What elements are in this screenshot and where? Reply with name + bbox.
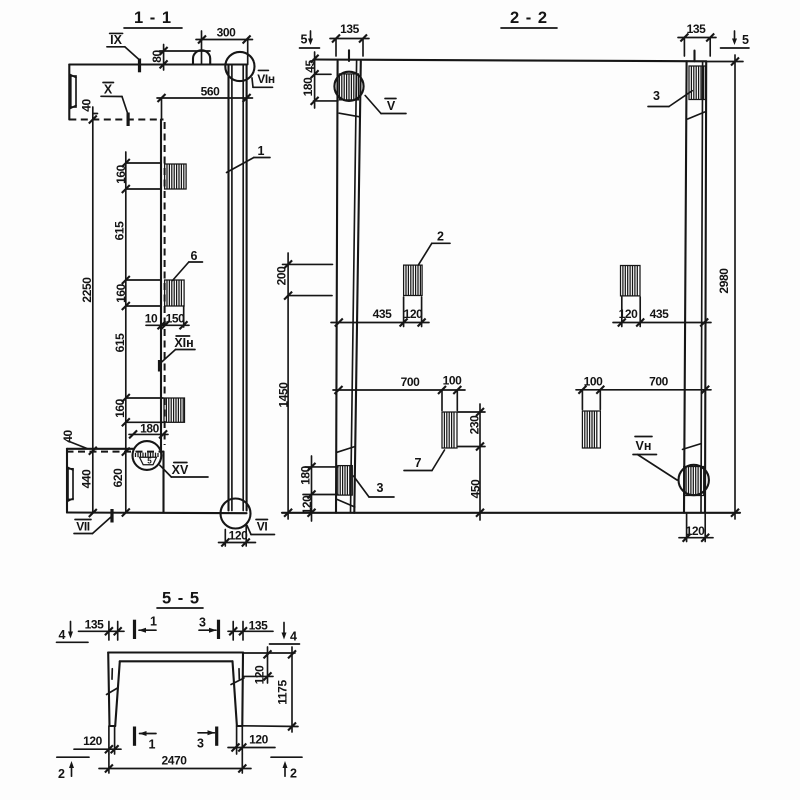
cut mark 1 bottom xyxy=(135,727,157,752)
svg-text:180: 180 xyxy=(301,77,315,97)
svg-text:300: 300 xyxy=(217,26,237,40)
section mark 4 left xyxy=(57,622,89,643)
dim 180/120 left bottom xyxy=(299,456,339,521)
svg-text:3: 3 xyxy=(199,616,206,630)
svg-text:700: 700 xyxy=(401,375,421,389)
dim 135 right 5-5 xyxy=(228,619,273,641)
embedded bar bottom-left xyxy=(67,467,73,502)
hatch plate 3 left bottom xyxy=(338,466,353,496)
svg-text:VIн: VIн xyxy=(257,72,275,86)
svg-text:120: 120 xyxy=(229,529,249,543)
label V xyxy=(365,96,406,114)
svg-text:X: X xyxy=(104,83,113,97)
section mark 5 left xyxy=(300,31,320,48)
svg-text:3: 3 xyxy=(653,89,660,103)
svg-text:615: 615 xyxy=(113,333,127,353)
dim 100/700 right xyxy=(576,375,711,410)
dim 40 top xyxy=(80,99,98,114)
svg-text:135: 135 xyxy=(85,618,105,632)
svg-text:V: V xyxy=(387,99,396,113)
svg-text:IX: IX xyxy=(110,33,122,47)
section mark 5 right xyxy=(721,31,750,48)
title 5-5 xyxy=(157,590,203,609)
hatch plate in circle Vn xyxy=(684,467,704,496)
hatch plate 2' right xyxy=(621,266,641,296)
svg-text:2470: 2470 xyxy=(161,754,187,768)
svg-text:XIн: XIн xyxy=(174,336,193,350)
dim 120 bottom left 5-5 xyxy=(74,726,121,754)
lifting loop xyxy=(193,50,210,64)
svg-text:560: 560 xyxy=(201,85,221,99)
dim 435/120 left xyxy=(331,297,429,327)
svg-text:4: 4 xyxy=(59,628,66,642)
dim 230/450 left xyxy=(458,404,485,520)
dim 120 bottom right col xyxy=(679,514,713,542)
section mark 2 right xyxy=(271,757,302,780)
dim 120 bottom right 5-5 xyxy=(228,726,275,754)
label XV xyxy=(160,463,208,478)
svg-text:VI: VI xyxy=(257,520,268,534)
svg-text:100: 100 xyxy=(443,374,463,388)
svg-text:2: 2 xyxy=(290,767,297,781)
svg-text:7: 7 xyxy=(415,456,422,470)
dim 180 xyxy=(129,422,168,439)
svg-text:200: 200 xyxy=(275,266,289,286)
panel top edge xyxy=(314,60,707,62)
section mark 4 right xyxy=(270,623,300,645)
svg-text:160: 160 xyxy=(114,283,128,303)
hatch plate 7 left xyxy=(442,412,457,448)
dim 200/1450 left xyxy=(275,253,333,519)
hatch plate V in left column xyxy=(339,74,358,100)
dim 135 right column xyxy=(678,22,716,56)
svg-text:2 - 2: 2 - 2 xyxy=(510,9,548,27)
label Vn xyxy=(633,437,677,481)
svg-text:160: 160 xyxy=(114,164,128,184)
panel top flange outline xyxy=(69,65,246,120)
weld plate 6a xyxy=(165,164,187,189)
svg-text:620: 620 xyxy=(111,468,125,488)
svg-text:5: 5 xyxy=(301,33,308,47)
svg-text:435: 435 xyxy=(650,307,670,321)
title 2-2 xyxy=(501,9,557,28)
svg-text:135: 135 xyxy=(340,22,360,36)
panel bottom edge xyxy=(282,512,740,514)
label 1 xyxy=(227,144,271,173)
svg-text:10: 10 xyxy=(145,312,158,326)
dim 2470 xyxy=(99,754,251,774)
dim 1175 xyxy=(242,647,299,732)
left column 2-2 xyxy=(336,50,361,513)
dim 560 xyxy=(157,85,253,120)
svg-text:440: 440 xyxy=(79,469,93,489)
dim 2250 xyxy=(79,107,97,517)
channel profile xyxy=(107,653,245,727)
svg-text:5: 5 xyxy=(742,33,749,47)
bottom flange outline xyxy=(67,449,247,513)
svg-text:700: 700 xyxy=(649,375,669,389)
label 6 xyxy=(173,249,203,281)
svg-text:1: 1 xyxy=(150,615,157,629)
label XIn xyxy=(160,336,196,372)
dim 700/100 left xyxy=(333,374,465,411)
svg-text:VII: VII xyxy=(76,520,90,534)
svg-text:Vн: Vн xyxy=(636,439,652,453)
svg-text:180: 180 xyxy=(140,422,160,436)
weld plate 6b xyxy=(165,280,185,306)
label 7 xyxy=(404,450,445,471)
hatch plate 2 left xyxy=(404,265,423,295)
svg-text:150: 150 xyxy=(166,312,186,326)
detail circle XV xyxy=(133,441,162,470)
label 3 top right xyxy=(648,89,692,107)
dim 120 bottom 1-1 xyxy=(219,525,256,547)
dim 45/180 left xyxy=(301,52,338,108)
svg-text:2: 2 xyxy=(58,767,65,781)
svg-text:615: 615 xyxy=(113,221,127,241)
hatch plate 7' right xyxy=(582,411,600,448)
svg-text:3: 3 xyxy=(377,481,384,495)
label 3 bottom left xyxy=(354,476,395,497)
right column 2-2 xyxy=(683,51,707,513)
detail circle VI xyxy=(221,499,251,529)
embedded bar top-left xyxy=(70,75,76,109)
label 2 xyxy=(418,230,450,266)
svg-text:3: 3 xyxy=(197,737,204,751)
svg-text:1 - 1: 1 - 1 xyxy=(134,9,172,27)
svg-text:135: 135 xyxy=(687,22,707,36)
detail circle Vn xyxy=(679,465,709,495)
svg-text:40: 40 xyxy=(80,99,94,112)
svg-text:135: 135 xyxy=(249,619,269,633)
column item 1 xyxy=(229,65,247,511)
svg-text:120: 120 xyxy=(249,733,269,747)
label VIn xyxy=(252,70,275,87)
label IX xyxy=(107,33,140,72)
rib visible edge xyxy=(160,120,162,451)
dim chain 160/615/160/615/160/620 xyxy=(111,152,163,517)
svg-text:2980: 2980 xyxy=(717,268,731,294)
title 1-1 xyxy=(124,9,182,28)
svg-text:1175: 1175 xyxy=(276,680,290,705)
dim 300 xyxy=(196,26,253,65)
hatch plate 3 right top xyxy=(689,66,705,100)
dim 120 right rotated xyxy=(243,647,295,684)
rib hidden edge dashed xyxy=(164,122,166,445)
svg-text:120: 120 xyxy=(253,665,267,685)
dim 80 xyxy=(150,45,210,71)
dim 10 150 xyxy=(145,306,189,329)
label VII xyxy=(74,509,112,534)
svg-text:1: 1 xyxy=(149,738,156,752)
label VI xyxy=(247,520,275,535)
cut mark 3 bottom xyxy=(197,727,217,751)
svg-text:160: 160 xyxy=(113,398,127,418)
label X xyxy=(101,83,128,127)
dim 2980 xyxy=(706,55,743,519)
svg-text:4: 4 xyxy=(290,630,297,644)
svg-text:2: 2 xyxy=(437,230,444,244)
detail circle VIn top xyxy=(225,52,254,81)
cut mark 3 top xyxy=(199,616,219,640)
svg-text:XV: XV xyxy=(172,463,189,477)
svg-text:2250: 2250 xyxy=(80,277,94,303)
dim 135 left column xyxy=(330,22,369,56)
weld plate 6c xyxy=(164,398,185,422)
svg-text:6: 6 xyxy=(191,249,198,263)
dim 40 bottom xyxy=(61,430,87,449)
svg-text:5: 5 xyxy=(147,457,152,466)
cut mark 1 top xyxy=(135,615,158,640)
section mark 2 left xyxy=(57,757,89,781)
dim 135 left 5-5 xyxy=(79,618,125,641)
svg-text:1: 1 xyxy=(258,144,265,158)
svg-text:120: 120 xyxy=(83,734,103,748)
svg-text:5 - 5: 5 - 5 xyxy=(162,590,200,608)
svg-text:435: 435 xyxy=(373,307,393,321)
detail circle V xyxy=(334,72,363,101)
hidden edge dashed top flange xyxy=(69,119,163,121)
dim 120/435 right xyxy=(613,297,711,327)
